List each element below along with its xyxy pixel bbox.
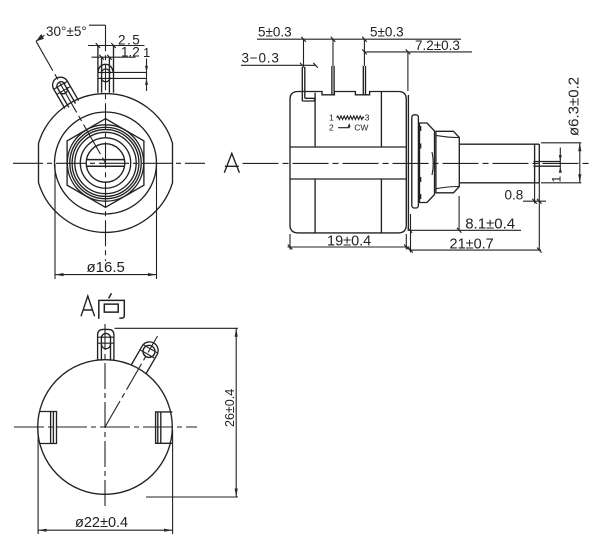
dim 1 slot width bbox=[559, 148, 561, 173]
schematic resistor zigzag bbox=[337, 116, 364, 120]
svg-text:ø16.5: ø16.5 bbox=[87, 259, 125, 276]
svg-text:1: 1 bbox=[329, 113, 334, 123]
shaft bbox=[459, 144, 534, 183]
left side tab bbox=[39, 412, 57, 444]
vertical centerline bottom view bbox=[104, 324, 106, 510]
washer circle bbox=[70, 127, 141, 198]
pin extension lines bbox=[304, 39, 365, 67]
side view horizontal centerline bbox=[243, 162, 592, 164]
terminal pin 2 bbox=[332, 66, 334, 95]
top lug tab front view bbox=[98, 46, 114, 93]
dim 21 line bbox=[408, 248, 541, 253]
right side tab bbox=[156, 412, 173, 443]
dim 21 extension line bbox=[410, 214, 412, 253]
horizontal centerline front view bbox=[13, 162, 205, 164]
dim 26 line bbox=[235, 328, 237, 497]
extension line bushing base bbox=[407, 52, 409, 91]
angled lug hole cross lines bottom view bbox=[141, 345, 158, 358]
svg-text:19±0.4: 19±0.4 bbox=[327, 234, 371, 250]
body shaft band lines bbox=[290, 147, 406, 179]
schematic wiper bbox=[338, 124, 349, 128]
angled lug tab bottom view bbox=[131, 339, 161, 374]
angled lug hole circle bottom view bbox=[141, 343, 157, 359]
dim 0.8 extension lines bbox=[535, 183, 540, 251]
angled lug inner fold lines bbox=[57, 84, 75, 108]
svg-text:26±0.4: 26±0.4 bbox=[223, 389, 237, 427]
dim 19 line bbox=[288, 245, 410, 250]
dim o6.3 extension lines bbox=[541, 143, 581, 183]
svg-text:7.2±0.3: 7.2±0.3 bbox=[415, 38, 460, 53]
svg-text:3: 3 bbox=[365, 113, 370, 123]
nut inscribed circle bbox=[67, 125, 143, 201]
dimension o16.5 extension lines bbox=[55, 164, 157, 279]
svg-text:CW: CW bbox=[354, 123, 368, 133]
top lug dome fold arc bbox=[98, 64, 112, 71]
svg-text:2: 2 bbox=[329, 123, 334, 133]
dim 8.1 line bbox=[408, 228, 522, 233]
bushing circle bbox=[72, 130, 139, 197]
dim 19 extension lines bbox=[290, 234, 406, 250]
dim o22 line bbox=[38, 529, 173, 531]
svg-text:5±0.3: 5±0.3 bbox=[258, 25, 292, 40]
horizontal centerline bottom view bbox=[14, 426, 197, 428]
hanzi xiang (view) drawn as strokes bbox=[99, 293, 125, 319]
top lug hole arcs bottom view bbox=[101, 333, 110, 348]
nut chamfer arcs bbox=[436, 135, 459, 188]
dim 26 extension lines bbox=[115, 328, 239, 497]
terminal pin 3 bbox=[363, 66, 365, 95]
svg-text:8.1±0.4: 8.1±0.4 bbox=[465, 215, 515, 232]
top lug inner fold lines bottom view bbox=[101, 336, 110, 361]
svg-text:0.8: 0.8 bbox=[505, 187, 524, 202]
angled lug tab at 30deg bbox=[50, 74, 79, 109]
section label A bbox=[224, 153, 239, 172]
dim o22 extension lines bbox=[38, 430, 173, 534]
dim 5+-0.3 line bbox=[257, 38, 461, 40]
30deg tab axis centerline bbox=[36, 41, 106, 163]
svg-text:21±0.7: 21±0.7 bbox=[450, 236, 494, 252]
top lug inner fold lines bbox=[102, 57, 110, 93]
angled lug hole bottom arc bbox=[142, 353, 151, 359]
dimension o16.5 line bbox=[55, 274, 157, 276]
top lug hole cross lines bottom view bbox=[98, 337, 114, 343]
shaft slot lines side view bbox=[534, 162, 561, 167]
top lug tab bottom view bbox=[98, 329, 114, 360]
dimension 1 bracket bbox=[98, 59, 146, 92]
flange circle ø16.5 bbox=[55, 112, 157, 214]
body outline side view bbox=[290, 92, 406, 233]
spring washer bbox=[420, 123, 435, 203]
svg-text:5±0.3: 5±0.3 bbox=[370, 25, 404, 40]
shaft tip face and slot bottom bbox=[535, 144, 540, 183]
svg-text:30°±5°: 30°±5° bbox=[46, 24, 87, 39]
shaft circle bbox=[86, 144, 125, 183]
angled lug hole cross lines bbox=[54, 81, 70, 94]
angled lug hole arcs bbox=[55, 80, 69, 95]
body cover step verticals bbox=[315, 92, 381, 233]
washer bbox=[412, 115, 419, 208]
dim 3-0.3 line bbox=[241, 63, 318, 68]
dimension 1.2 line bbox=[92, 55, 136, 60]
top lug hole arcs bbox=[101, 69, 110, 82]
30deg axis centerline bottom view bbox=[105, 336, 158, 427]
thread circle bbox=[75, 132, 136, 193]
title A xiang bbox=[81, 296, 95, 316]
svg-text:3−0.3: 3−0.3 bbox=[242, 50, 280, 65]
dimension 30deg+-5 leader bbox=[36, 25, 105, 41]
shaft boss circle bbox=[80, 138, 130, 188]
dim 8.1 extension line bbox=[458, 196, 460, 231]
dim o6.3 line bbox=[579, 143, 581, 183]
svg-text:1.2: 1.2 bbox=[121, 45, 140, 60]
body flange line right bbox=[407, 95, 409, 230]
body outline circle with side flats bbox=[39, 94, 173, 233]
svg-text:1: 1 bbox=[549, 176, 563, 183]
spring washer wave line bbox=[432, 152, 433, 175]
svg-text:1: 1 bbox=[143, 45, 150, 60]
dimension 2.5 line bbox=[88, 43, 145, 48]
dim 0.8 line bbox=[523, 199, 546, 204]
spring washer serration marks bbox=[419, 126, 421, 199]
vertical centerline front view bbox=[105, 25, 107, 261]
body circle bbox=[38, 360, 173, 495]
shaft slot lines bbox=[87, 160, 125, 167]
dim ticks on 5 line bbox=[301, 37, 366, 42]
hex nut bbox=[67, 119, 144, 208]
dim 7.2+-0.3 line bbox=[362, 49, 472, 54]
svg-text:ø6.3±0.2: ø6.3±0.2 bbox=[566, 77, 583, 136]
hex nut side view bbox=[436, 131, 459, 193]
terminal pin 1 bbox=[302, 67, 314, 101]
svg-text:ø22±0.4: ø22±0.4 bbox=[75, 515, 128, 531]
